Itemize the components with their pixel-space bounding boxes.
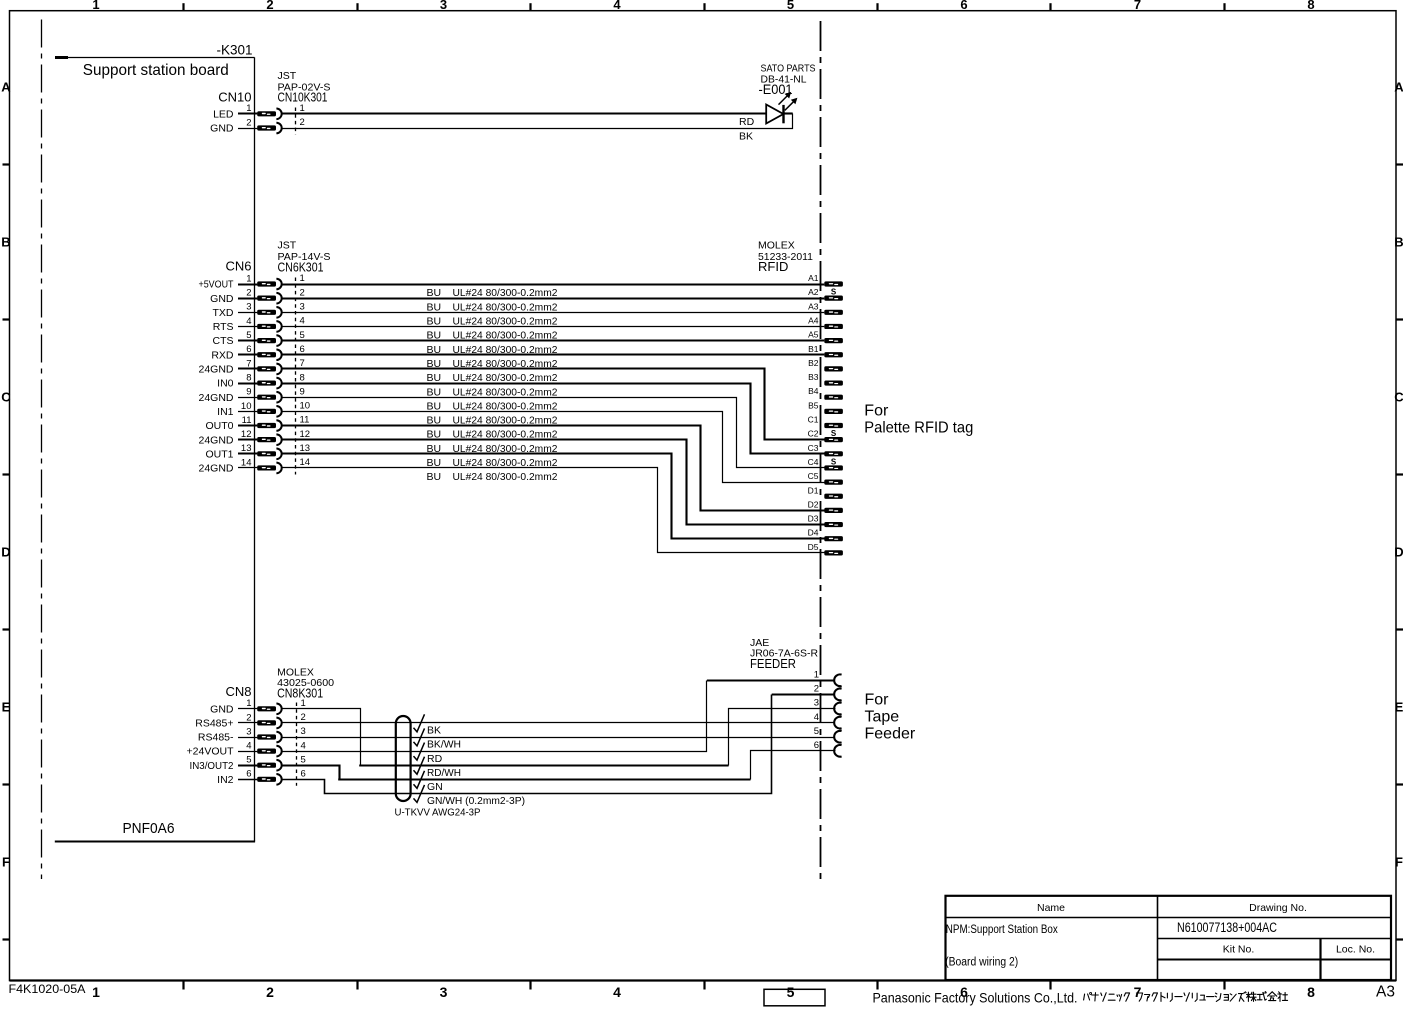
svg-text:2: 2 xyxy=(300,287,305,298)
CN8 pin 4 stub wire xyxy=(238,751,257,753)
wire CN6-7 to RFID C2 xyxy=(282,369,825,440)
CN6 pin 14 stub wire xyxy=(238,467,257,469)
svg-text:Panasonic Factory Solutions Co: Panasonic Factory Solutions Co.,Ltd. xyxy=(873,989,1078,1005)
svg-text:7: 7 xyxy=(1134,0,1141,12)
RFID pin C4 contact xyxy=(824,465,843,470)
CN6 pin 8 stub wire xyxy=(238,382,257,384)
CN6 pin 8 contact xyxy=(257,380,276,385)
svg-text:A: A xyxy=(1394,80,1403,95)
svg-text:D5: D5 xyxy=(808,542,819,552)
connector CN10K301 boundary dashed line xyxy=(295,108,297,135)
CN10 pin 2 stub wire xyxy=(238,128,257,130)
CN8 pin 1 contact xyxy=(257,706,276,711)
CN6 pin 2 contact xyxy=(257,296,276,301)
svg-text:13: 13 xyxy=(300,443,311,454)
svg-text:3: 3 xyxy=(301,726,306,737)
svg-text:24GND: 24GND xyxy=(198,463,233,475)
CN8 pin 5 stub wire xyxy=(238,764,257,766)
svg-text:UL#24 80/300-0.2mm2: UL#24 80/300-0.2mm2 xyxy=(453,287,558,299)
svg-text:BK/WH: BK/WH xyxy=(427,739,461,751)
RFID pin D3 contact xyxy=(824,522,843,527)
board -K301 outline bottom edge xyxy=(55,840,255,842)
svg-text:1: 1 xyxy=(92,0,99,12)
svg-text:4: 4 xyxy=(246,316,251,327)
svg-text:1: 1 xyxy=(814,670,819,681)
svg-text:3: 3 xyxy=(300,302,305,313)
svg-text:GND: GND xyxy=(210,703,234,715)
svg-text:6: 6 xyxy=(300,344,305,355)
svg-text:2: 2 xyxy=(246,288,251,299)
svg-text:CN8: CN8 xyxy=(225,684,251,699)
svg-text:D4: D4 xyxy=(808,528,819,538)
CN8 pin 3 contact xyxy=(257,734,276,739)
svg-text:6: 6 xyxy=(246,769,251,780)
CN6 pin 4 stub wire xyxy=(238,326,257,328)
CN10 pin 2 contact xyxy=(257,125,276,130)
CN6 pin 11 contact xyxy=(257,423,276,428)
svg-text:3: 3 xyxy=(814,698,819,709)
cable strand mark RD/WH xyxy=(414,757,425,775)
wire CN8-2 RS485+ (BK) to FEEDER 4 xyxy=(282,722,835,724)
FEEDER pin 6 contact xyxy=(834,745,841,757)
wire FEEDER pin 1 segment (RD) xyxy=(707,679,835,681)
cable strand mark GN xyxy=(414,771,425,789)
wire CN8-3 RS485- (BK/WH) to FEEDER 5 xyxy=(282,737,835,739)
CN8 pin 6 contact xyxy=(257,777,276,782)
CN6 pin 14 contact xyxy=(257,465,276,470)
svg-text:JST: JST xyxy=(278,70,297,82)
svg-text:C: C xyxy=(1394,390,1403,405)
FEEDER pin 5 contact xyxy=(834,731,841,743)
svg-text:3: 3 xyxy=(440,984,448,1000)
svg-text:C1: C1 xyxy=(808,415,819,425)
svg-text:5: 5 xyxy=(246,755,251,766)
CN6 pin 4 contact xyxy=(257,324,276,329)
svg-text:9: 9 xyxy=(246,387,251,398)
CN6 pin 5 contact xyxy=(257,338,276,343)
svg-text:UL#24 80/300-0.2mm2: UL#24 80/300-0.2mm2 xyxy=(453,386,558,398)
svg-text:6: 6 xyxy=(960,0,967,12)
RFID pin D2 contact xyxy=(824,508,843,513)
board boundary dash-dot line (left) xyxy=(41,20,43,880)
CN8 pin 3 stub wire xyxy=(238,737,257,739)
wire CN6-13 to RFID D4 xyxy=(282,454,825,539)
svg-text:-K301: -K301 xyxy=(217,43,253,58)
svg-text:RXD: RXD xyxy=(211,349,234,361)
svg-text:3: 3 xyxy=(246,726,251,737)
svg-text:S: S xyxy=(831,429,837,438)
svg-text:6: 6 xyxy=(814,740,819,751)
svg-text:F: F xyxy=(1395,855,1403,870)
svg-text:E: E xyxy=(1395,700,1403,715)
svg-text:A3: A3 xyxy=(1376,983,1395,1000)
svg-text:C: C xyxy=(1,390,11,405)
CN6 pin 12 stub wire xyxy=(238,438,257,440)
svg-text:D: D xyxy=(1,545,10,560)
svg-text:Loc. No.: Loc. No. xyxy=(1336,944,1375,956)
svg-text:5: 5 xyxy=(300,330,305,341)
svg-text:BU: BU xyxy=(427,287,442,299)
svg-text:A5: A5 xyxy=(808,330,819,340)
wire CN8-5 IN3/OUT2 (GN) to FEEDER 6 xyxy=(282,766,340,780)
svg-text:NPM:Support Station Box: NPM:Support Station Box xyxy=(946,924,1058,936)
svg-text:IN1: IN1 xyxy=(217,406,234,418)
svg-text:1: 1 xyxy=(246,273,251,284)
wire CN6-3 to RFID A3 xyxy=(282,312,825,314)
title block drawing row divider xyxy=(1157,938,1391,940)
svg-text:PNF0A6: PNF0A6 xyxy=(123,820,175,837)
CN8 pin 6 stub wire xyxy=(238,779,257,781)
svg-text:5: 5 xyxy=(814,726,819,737)
svg-text:B1: B1 xyxy=(808,344,819,354)
svg-text:8: 8 xyxy=(1307,984,1315,1000)
CN6 pin 7 contact xyxy=(257,366,276,371)
FEEDER pin 1 contact xyxy=(834,674,841,686)
svg-text:12: 12 xyxy=(300,429,311,440)
svg-text:F4K1020-05A: F4K1020-05A xyxy=(9,982,86,996)
svg-text:Feeder: Feeder xyxy=(865,725,916,742)
CN6 pin 6 stub wire xyxy=(238,353,257,355)
svg-text:F: F xyxy=(2,855,10,870)
svg-text:RS485-: RS485- xyxy=(198,732,234,744)
CN6 pin 12 contact xyxy=(257,437,276,442)
svg-text:24GND: 24GND xyxy=(198,364,233,376)
svg-text:14: 14 xyxy=(241,457,252,468)
svg-text:RD: RD xyxy=(427,753,443,765)
svg-text:UL#24 80/300-0.2mm2: UL#24 80/300-0.2mm2 xyxy=(453,301,558,313)
svg-text:A1: A1 xyxy=(808,273,819,283)
svg-text:A3: A3 xyxy=(808,301,819,311)
svg-text:GND: GND xyxy=(210,293,234,305)
wire CN6-12 to RFID D3 xyxy=(282,440,825,525)
svg-text:BU: BU xyxy=(427,471,442,483)
svg-text:Support station board: Support station board xyxy=(83,62,229,79)
svg-text:14: 14 xyxy=(300,457,311,468)
connector CN6K301 boundary dashed line xyxy=(295,278,297,475)
cable U-TKVV AWG24-3P shield oval xyxy=(396,716,411,801)
svg-text:24GND: 24GND xyxy=(198,392,233,404)
title block header divider line xyxy=(946,917,1392,919)
svg-text:2: 2 xyxy=(300,117,305,128)
svg-text:RS485+: RS485+ xyxy=(195,718,233,730)
svg-text:CTS: CTS xyxy=(213,335,234,347)
svg-text:5: 5 xyxy=(246,330,251,341)
svg-text:4: 4 xyxy=(246,741,251,752)
wire CN6-6 to RFID B1 xyxy=(282,353,825,355)
svg-text:(Board wiring 2): (Board wiring 2) xyxy=(945,956,1018,968)
svg-text:U-TKVV AWG24-3P: U-TKVV AWG24-3P xyxy=(395,806,481,818)
RFID pin A4 contact xyxy=(824,324,843,329)
CN10 pin 1 stub wire xyxy=(238,112,257,114)
cable strand mark BK/WH xyxy=(414,728,425,746)
RFID pin C3 contact xyxy=(824,451,843,456)
svg-text:6: 6 xyxy=(301,769,306,780)
svg-text:10: 10 xyxy=(241,401,252,412)
CN6 pin 11 stub wire xyxy=(238,424,257,426)
svg-text:2: 2 xyxy=(266,984,274,1000)
svg-text:C3: C3 xyxy=(808,443,819,453)
CN6 pin 3 stub wire xyxy=(238,312,257,314)
svg-text:IN0: IN0 xyxy=(217,378,234,390)
svg-text:E: E xyxy=(2,700,11,715)
svg-text:OUT1: OUT1 xyxy=(205,448,233,460)
CN6 pin 3 contact xyxy=(257,310,276,315)
svg-text:RD: RD xyxy=(739,116,755,128)
svg-text:2: 2 xyxy=(814,684,819,695)
CN6 pin 1 contact xyxy=(257,281,276,286)
svg-text:B: B xyxy=(1394,235,1403,250)
FEEDER pin 3 contact xyxy=(834,703,841,715)
CN6 pin 5 stub wire xyxy=(238,339,257,341)
wire CN10-1 to LED anode (RD) xyxy=(282,112,767,114)
CN6 pin 13 contact xyxy=(257,451,276,456)
FEEDER pin 4 contact xyxy=(834,717,841,729)
RFID pin A5 contact xyxy=(824,338,843,343)
RFID pin B1 contact xyxy=(824,352,843,357)
CN6 pin 6 contact xyxy=(257,352,276,357)
svg-text:A2: A2 xyxy=(808,287,819,297)
svg-text:BU: BU xyxy=(427,316,442,328)
svg-text:2: 2 xyxy=(246,712,251,723)
RFID pin C5 contact xyxy=(824,480,843,485)
board -K301 outline top edge xyxy=(55,57,255,59)
svg-text:UL#24 80/300-0.2mm2: UL#24 80/300-0.2mm2 xyxy=(453,372,558,384)
CN6 pin 10 contact xyxy=(257,409,276,414)
svg-text:2: 2 xyxy=(301,712,306,723)
svg-text:4: 4 xyxy=(613,0,621,12)
wire CN8-1 GND (RD/WH) to FEEDER 3 xyxy=(282,709,361,766)
cable strand mark BK xyxy=(414,714,425,732)
svg-text:A: A xyxy=(1,80,11,95)
svg-text:BU: BU xyxy=(427,301,442,313)
CN6 pin 7 stub wire xyxy=(238,367,257,369)
LED -E001 light emission arrow 1 xyxy=(779,96,788,105)
CN6 pin 1 stub wire xyxy=(238,283,257,285)
svg-text:N610077138+004AC: N610077138+004AC xyxy=(1177,920,1277,935)
svg-text:4: 4 xyxy=(613,984,621,1000)
wire CN8-6 IN2 (GN/WH) to FEEDER 2 xyxy=(282,695,772,794)
board -K301 outline right edge xyxy=(254,57,256,841)
svg-text:8: 8 xyxy=(246,372,251,383)
title block name/drawing column divider xyxy=(1157,896,1159,980)
CN6 pin 13 stub wire xyxy=(238,452,257,454)
wire CN6-1 to RFID A1 xyxy=(282,283,825,285)
CN8 pin 1 stub wire xyxy=(238,708,257,710)
CN6 pin 9 stub wire xyxy=(238,397,257,399)
RFID pin C1 contact xyxy=(824,423,843,428)
svg-text:Kit No.: Kit No. xyxy=(1223,944,1255,956)
cable strand mark RD xyxy=(414,743,425,761)
svg-text:Drawing No.: Drawing No. xyxy=(1249,902,1307,914)
svg-text:D3: D3 xyxy=(808,514,819,524)
CN8 pin 5 contact xyxy=(257,763,276,768)
svg-text:C5: C5 xyxy=(808,471,819,481)
svg-text:BK: BK xyxy=(739,130,753,142)
RFID pin B3 contact xyxy=(824,380,843,385)
station boundary dash-dot line (right) xyxy=(820,21,822,880)
svg-text:JST: JST xyxy=(278,240,297,252)
svg-text:8: 8 xyxy=(1307,0,1314,12)
svg-text:Palette RFID tag: Palette RFID tag xyxy=(864,420,973,437)
RFID pin A2 contact xyxy=(824,296,843,301)
RFID pin D5 contact xyxy=(824,550,843,555)
svg-text:1: 1 xyxy=(246,698,251,709)
RFID pin B5 contact xyxy=(824,409,843,414)
svg-text:TXD: TXD xyxy=(213,307,234,319)
LED -E001 cathode stub wire xyxy=(784,112,793,114)
CN6 pin 9 contact xyxy=(257,395,276,400)
RFID pin B2 contact xyxy=(824,366,843,371)
svg-text:S: S xyxy=(831,457,837,466)
svg-text:11: 11 xyxy=(300,415,310,426)
CN8 pin 2 contact xyxy=(257,720,276,725)
svg-text:4: 4 xyxy=(300,316,305,327)
svg-text:D2: D2 xyxy=(808,499,819,509)
title block kit/loc column divider xyxy=(1319,938,1321,980)
svg-text:4: 4 xyxy=(301,740,306,751)
svg-text:Name: Name xyxy=(1037,902,1065,914)
connector CN8K301 boundary dashed line xyxy=(296,703,298,786)
svg-text:B: B xyxy=(1,235,10,250)
svg-text:8: 8 xyxy=(300,372,305,383)
RFID pin C2 contact xyxy=(824,437,843,442)
svg-text:Tape: Tape xyxy=(865,708,900,725)
FEEDER pin 2 contact xyxy=(834,689,841,701)
LED -E001 diode triangle xyxy=(766,105,783,124)
svg-text:IN3/OUT2: IN3/OUT2 xyxy=(190,760,234,772)
svg-text:5: 5 xyxy=(787,984,795,1000)
svg-text:BU: BU xyxy=(427,372,442,384)
svg-text:3: 3 xyxy=(246,302,251,313)
svg-text:GN: GN xyxy=(427,781,443,793)
wire CN6-11 to RFID D2 xyxy=(282,426,825,511)
svg-text:OUT0: OUT0 xyxy=(205,420,233,432)
svg-text:RTS: RTS xyxy=(213,321,234,333)
svg-text:1: 1 xyxy=(300,273,305,284)
CN8 pin 2 stub wire xyxy=(238,722,257,724)
CN10 pin 1 contact xyxy=(257,111,276,116)
svg-text:10: 10 xyxy=(300,401,311,412)
wire CN8-4 +24VOUT (RD) to FEEDER 1 xyxy=(282,681,707,752)
wire CN6-8 to RFID C3 xyxy=(282,384,825,454)
svg-text:BU: BU xyxy=(427,386,442,398)
svg-text:D1: D1 xyxy=(808,485,819,495)
cable strand mark GN/WH xyxy=(414,785,425,803)
wire CN10-2 LED cathode return (BK) xyxy=(282,114,793,129)
svg-text:SATO PARTS: SATO PARTS xyxy=(761,63,816,75)
wire CN6-4 to RFID A4 xyxy=(282,326,825,328)
svg-text:S: S xyxy=(831,288,837,297)
svg-text:5: 5 xyxy=(301,754,306,765)
svg-text:MOLEX: MOLEX xyxy=(758,240,795,252)
svg-text:FEEDER: FEEDER xyxy=(750,656,796,671)
svg-text:B2: B2 xyxy=(808,358,819,368)
svg-text:7: 7 xyxy=(1134,984,1142,1000)
svg-text:2: 2 xyxy=(266,0,273,12)
RFID pin D4 contact xyxy=(824,536,843,541)
wire CN6-2 to RFID A2 xyxy=(282,297,825,299)
CN8 pin 4 contact xyxy=(257,749,276,754)
svg-text:1: 1 xyxy=(301,698,306,709)
RFID pin A3 contact xyxy=(824,310,843,315)
svg-text:UL#24 80/300-0.2mm2: UL#24 80/300-0.2mm2 xyxy=(453,400,558,412)
svg-text:4: 4 xyxy=(814,712,819,723)
RFID pin D1 contact xyxy=(824,494,843,499)
svg-text:RFID: RFID xyxy=(758,259,788,274)
svg-text:RD/WH: RD/WH xyxy=(427,767,461,779)
svg-text:For: For xyxy=(865,691,890,708)
title block outer frame xyxy=(946,896,1392,980)
svg-text:5: 5 xyxy=(787,0,794,12)
svg-text:BK: BK xyxy=(427,725,441,737)
svg-text:+24VOUT: +24VOUT xyxy=(187,746,235,758)
wire CN6-9 to RFID C4 xyxy=(282,398,825,468)
svg-text:IN2: IN2 xyxy=(217,774,234,786)
svg-text:A4: A4 xyxy=(808,315,819,325)
svg-text:12: 12 xyxy=(241,429,252,440)
wire CN6-5 to RFID A5 xyxy=(282,339,825,341)
CN6 pin 10 stub wire xyxy=(238,411,257,413)
svg-text:C4: C4 xyxy=(808,457,819,467)
LED -E001 cathode bar xyxy=(782,105,784,123)
svg-text:+5VOUT: +5VOUT xyxy=(199,279,234,291)
svg-text:11: 11 xyxy=(242,415,252,426)
title block kit row divider xyxy=(1157,959,1391,961)
svg-text:CN6: CN6 xyxy=(225,259,251,274)
svg-text:C2: C2 xyxy=(808,429,819,439)
svg-text:D: D xyxy=(1394,545,1403,560)
RFID pin B4 contact xyxy=(824,395,843,400)
svg-text:LED: LED xyxy=(213,108,234,120)
svg-text:UL#24 80/300-0.2mm2: UL#24 80/300-0.2mm2 xyxy=(453,471,558,483)
svg-text:BU: BU xyxy=(427,400,442,412)
svg-text:GN/WH (0.2mm2-3P): GN/WH (0.2mm2-3P) xyxy=(427,795,525,807)
svg-text:1: 1 xyxy=(300,103,305,114)
revision box xyxy=(764,989,825,1006)
svg-text:3: 3 xyxy=(440,0,447,12)
svg-text:B5: B5 xyxy=(808,400,819,410)
CN6 pin 2 stub wire xyxy=(238,297,257,299)
svg-text:24GND: 24GND xyxy=(198,434,233,446)
svg-text:GND: GND xyxy=(210,123,234,135)
LED -E001 light emission arrow 2 xyxy=(785,101,794,110)
footer company name Japanese (vector glyphs) xyxy=(1084,992,1288,1002)
svg-text:B4: B4 xyxy=(808,386,819,396)
svg-text:1: 1 xyxy=(92,984,100,1000)
wire CN6-14 to RFID D5 xyxy=(282,468,825,553)
RFID pin A1 contact xyxy=(824,281,843,286)
wire CN6-10 to RFID C5 xyxy=(282,412,825,483)
svg-text:2: 2 xyxy=(246,117,251,128)
svg-text:9: 9 xyxy=(300,386,305,397)
svg-text:UL#24 80/300-0.2mm2: UL#24 80/300-0.2mm2 xyxy=(453,316,558,328)
svg-text:For: For xyxy=(864,403,889,420)
svg-text:B3: B3 xyxy=(808,372,819,382)
